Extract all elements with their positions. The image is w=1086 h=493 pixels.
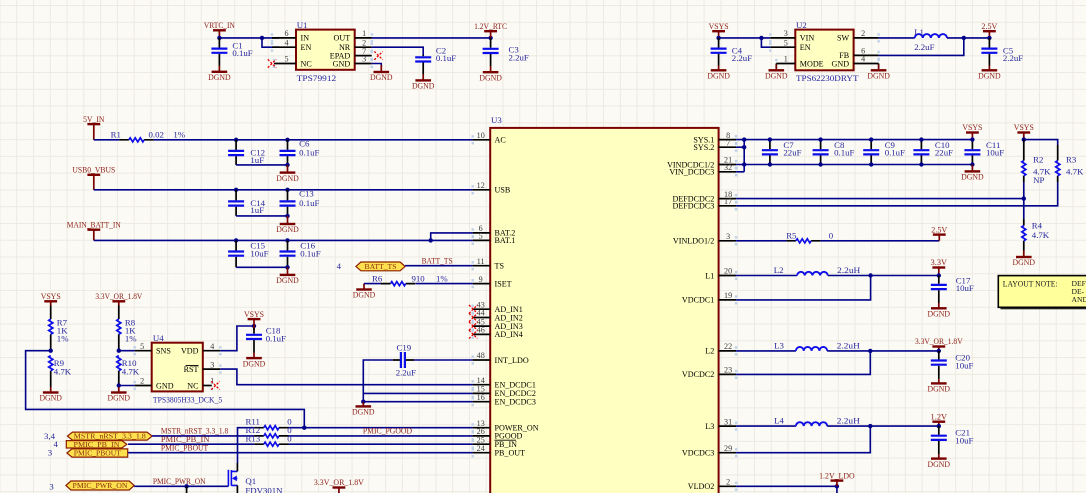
ground DGND under R9 — [50, 387, 52, 393]
resistor R6 910 1% — [381, 283, 415, 285]
svg-text:0.1uF: 0.1uF — [834, 148, 854, 158]
svg-text:DGND: DGND — [961, 172, 984, 182]
svg-text:NC: NC — [301, 59, 312, 68]
U3 pin 44 AD_IN2 — [473, 317, 491, 319]
svg-text:4.7K: 4.7K — [1032, 230, 1050, 240]
wire R11 left to Q1 drain rail — [238, 428, 255, 463]
svg-text:USB0_VBUS: USB0_VBUS — [72, 165, 115, 175]
svg-text:R6: R6 — [372, 274, 383, 284]
svg-text:DGND: DGND — [243, 358, 266, 368]
U4 pin 4 VDD — [203, 350, 221, 352]
svg-text:1%: 1% — [173, 130, 185, 140]
svg-text:4.7K: 4.7K — [1066, 167, 1084, 177]
capacitor C4 — [718, 38, 720, 66]
svg-text:TPS62230DRYT: TPS62230DRYT — [796, 73, 859, 83]
wire to U2.EN — [761, 38, 770, 47]
wire SYS vertical tie — [743, 140, 745, 172]
svg-text:3: 3 — [210, 360, 214, 369]
wire to U1.EN — [262, 38, 279, 47]
svg-text:22uF: 22uF — [935, 148, 953, 158]
svg-text:910: 910 — [412, 274, 426, 284]
svg-text:TS: TS — [495, 262, 504, 271]
svg-text:7: 7 — [726, 138, 730, 147]
U3 pin 6 BAT.2 — [473, 232, 491, 234]
port PMIC_PB_IN — [66, 441, 127, 448]
svg-text:U1: U1 — [297, 20, 308, 30]
inductor L4 2.2uH — [796, 422, 827, 426]
capacitor C18 0.1uF — [253, 328, 255, 353]
port MSTR_nRST_3.3_1.8 — [67, 432, 152, 440]
svg-text:PMIC_PBOUT: PMIC_PBOUT — [161, 442, 209, 452]
U3 pin 17 DEFDCDC3 — [719, 205, 737, 207]
svg-text:3: 3 — [726, 232, 730, 241]
wire L2 to 3.3V node — [828, 275, 939, 277]
svg-text:EN_DCDC3: EN_DCDC3 — [495, 398, 536, 407]
ground DGND row2 — [287, 216, 289, 224]
capacitor C19 2.2uF horizontal — [393, 359, 414, 361]
ground DGND under C4 — [718, 66, 720, 71]
op-amp U4 TPS3805H33_DCK_5 body — [152, 343, 203, 392]
junction BAT.2 branch — [429, 238, 433, 242]
wire C19 left to ground rail — [363, 360, 393, 402]
svg-text:EN_DCDC1: EN_DCDC1 — [495, 381, 536, 390]
wire U1.OUT to 1.2V_RTC — [372, 37, 491, 39]
wire MAIN_BATT_IN to U3.BAT.1 — [94, 239, 473, 241]
U2 pin 2 SW — [854, 37, 879, 39]
svg-text:SNS: SNS — [156, 347, 171, 356]
svg-text:C19: C19 — [397, 342, 412, 352]
svg-text:10uF: 10uF — [986, 148, 1004, 158]
svg-text:DGND: DGND — [479, 72, 502, 82]
capacitor C1 — [218, 38, 220, 66]
svg-text:VLDO2: VLDO2 — [688, 482, 715, 491]
junction after L1 — [962, 36, 966, 40]
svg-text:1uF: 1uF — [250, 155, 264, 165]
wire MSTR port to R12 — [152, 435, 254, 437]
svg-text:OUT: OUT — [334, 34, 351, 43]
svg-text:R3: R3 — [1066, 155, 1077, 165]
junction C15 tap — [234, 238, 238, 242]
svg-text:L3: L3 — [774, 341, 784, 351]
wire R12 to U3.PGOOD — [289, 435, 473, 437]
svg-text:5V_IN: 5V_IN — [83, 114, 105, 124]
no-connect X on U1.NC — [268, 59, 276, 67]
junction C12 tap — [234, 138, 238, 142]
U2 pin 6 FB — [854, 54, 879, 56]
svg-text:RST: RST — [184, 365, 199, 374]
svg-text:R4: R4 — [1032, 221, 1043, 231]
inductor L3 2.2uH — [796, 347, 827, 351]
svg-text:L3: L3 — [705, 422, 714, 431]
svg-text:10uF: 10uF — [250, 249, 268, 259]
wire U4.VDD to VSYS/C18 — [220, 326, 254, 351]
resistor R4 4.7K — [1023, 219, 1025, 226]
svg-text:MSTR_nRST_3.3_1.8: MSTR_nRST_3.3_1.8 — [74, 433, 146, 441]
svg-text:23: 23 — [724, 366, 732, 375]
U3 pin 20 L1 — [719, 275, 737, 277]
U3 pin 32 VIN_DCDC3 — [719, 171, 737, 173]
svg-text:DGND: DGND — [370, 72, 393, 82]
svg-text:L4: L4 — [774, 416, 784, 426]
junction output node — [937, 349, 941, 353]
wire U3 to inductor L4 — [736, 425, 796, 427]
junction PWR_ON drop — [184, 484, 188, 488]
svg-text:R2: R2 — [1033, 155, 1043, 165]
resistor R11 0 — [254, 427, 288, 429]
svg-text:NP: NP — [1033, 175, 1044, 185]
svg-text:0.02: 0.02 — [149, 130, 164, 140]
wire PBOUT port to U3.PB_OUT — [128, 452, 473, 454]
U3 pin 43 AD_IN1 — [473, 308, 491, 310]
svg-text:AND: AND — [1072, 295, 1086, 304]
svg-text:PMIC_PB_IN: PMIC_PB_IN — [74, 441, 121, 449]
U3 pin 23 VDCDC2 — [719, 373, 737, 375]
wire L1 to 2.5V node — [947, 37, 989, 39]
svg-text:TPS3805H33_DCK_5: TPS3805H33_DCK_5 — [153, 395, 223, 405]
wire R11 right to POWER_ON — [289, 427, 473, 429]
svg-text:16: 16 — [477, 393, 485, 402]
U3 pin 3 VINLDO1/2 — [719, 240, 737, 242]
junction R7/R9 divider — [49, 349, 53, 353]
no-connect X on U1.EPAD — [374, 51, 382, 59]
svg-text:0.1uF: 0.1uF — [885, 148, 905, 158]
wire L3 to output cap — [827, 350, 939, 352]
svg-text:DGND: DGND — [928, 384, 951, 394]
junction at ground tap row1 — [285, 163, 289, 167]
junction 1.2V_LDO node — [835, 484, 839, 488]
svg-text:AD_IN4: AD_IN4 — [495, 330, 523, 339]
junction DEFDCDC2/R2/R4 — [1022, 196, 1026, 200]
svg-text:L2: L2 — [705, 347, 714, 356]
ground DGND under C5 — [988, 66, 990, 71]
ground DGND under U1.GND — [380, 65, 382, 72]
svg-text:3: 3 — [49, 481, 54, 491]
svg-text:DGND: DGND — [352, 407, 375, 417]
U3 pin 21 VINDCDC1/2 — [719, 164, 737, 166]
junction output node — [937, 424, 941, 428]
U3 pin 13 POWER_ON — [473, 427, 491, 429]
svg-text:VDCDC3: VDCDC3 — [682, 449, 714, 458]
wire divider to R11 and POWER_ON — [26, 351, 305, 428]
op-amp U2 TPS62230DRYT body — [795, 30, 853, 71]
U3 pin 29 VDCDC3 — [719, 452, 737, 454]
junction SYS vertical — [742, 137, 746, 141]
wire C19 to U3.INT_LDO — [414, 359, 473, 361]
op-amp U1 TPS79912 body — [296, 30, 355, 70]
ground DGND under C18 — [253, 353, 255, 359]
capacitor C17 10uF — [938, 276, 940, 304]
capacitor C5 — [988, 38, 990, 66]
svg-text:R13: R13 — [246, 433, 261, 443]
junction 3.3V node — [937, 273, 941, 277]
capacitor C8 0.1uF — [820, 140, 822, 165]
svg-text:3.3V_OR_1.8V: 3.3V_OR_1.8V — [314, 477, 365, 487]
svg-text:LAYOUT NOTE:: LAYOUT NOTE: — [1003, 279, 1058, 288]
svg-text:GND: GND — [156, 381, 174, 390]
svg-text:DGND: DGND — [353, 290, 376, 300]
U3 pin 10 AC — [473, 139, 491, 141]
U3 pin 16 EN_DCDC3 — [473, 401, 491, 403]
svg-text:EN: EN — [301, 43, 312, 52]
svg-text:GND: GND — [832, 59, 850, 68]
svg-text:PMIC_PWR_ON: PMIC_PWR_ON — [153, 476, 206, 486]
wire U2.MODE to ground — [775, 64, 777, 66]
U4 pin 2 GND — [135, 385, 152, 387]
wire R6 to U3.ISET — [415, 283, 472, 285]
U3 pin 7 SYS.2 — [719, 146, 737, 148]
svg-text:VINLDO1/2: VINLDO1/2 — [673, 237, 714, 246]
wire VSYS to U2.VIN — [719, 37, 771, 39]
svg-text:9: 9 — [479, 275, 483, 284]
svg-text:VSYS: VSYS — [709, 21, 729, 31]
svg-text:2.2uH: 2.2uH — [837, 265, 861, 275]
svg-text:2.5V: 2.5V — [981, 21, 998, 31]
wire U4.RST to EN_DCDC1 — [220, 369, 472, 385]
svg-text:NC: NC — [187, 381, 198, 390]
junction U2.EN branch — [759, 36, 763, 40]
U1 pin 5 NC — [274, 63, 296, 65]
svg-text:1: 1 — [784, 55, 788, 64]
no-connect X on AD_IN1 — [469, 305, 477, 313]
U3 pin 46 AD_IN4 — [473, 333, 491, 335]
svg-text:32: 32 — [724, 163, 732, 172]
svg-text:VSYS: VSYS — [962, 122, 982, 132]
svg-text:4.7K: 4.7K — [54, 367, 72, 377]
svg-text:0.1uF: 0.1uF — [300, 249, 320, 259]
wire PWR_ON drop off-sheet — [186, 486, 188, 493]
svg-text:SYS.2: SYS.2 — [693, 143, 714, 152]
wire BATT_TS to U3.TS — [405, 265, 473, 267]
resistor R7 1K 1% — [50, 306, 52, 320]
svg-text:MODE: MODE — [800, 59, 824, 68]
junction feedback tap — [868, 424, 872, 428]
svg-text:SW: SW — [837, 34, 850, 43]
resistor R5 0 — [786, 240, 820, 242]
junction VDD at C18 lead — [252, 324, 256, 328]
U3 pin 8 SYS.1 — [719, 139, 737, 141]
svg-text:U2: U2 — [796, 20, 807, 30]
ground DGND under C2 — [422, 74, 424, 80]
junction 1.2V_RTC node — [488, 36, 492, 40]
wire PB_IN port to R13 — [128, 443, 254, 445]
resistor R9 4.7K — [50, 371, 52, 387]
U3 pin 19 VDCDC1 — [719, 299, 737, 301]
U3 pin 48 INT_LDO — [473, 359, 491, 361]
svg-text:3: 3 — [48, 448, 53, 458]
ground DGND under C11 — [971, 165, 973, 172]
ground DGND under U2.MODE — [775, 65, 777, 71]
svg-text:31: 31 — [724, 417, 732, 426]
svg-text:5: 5 — [140, 342, 144, 351]
svg-text:ISET: ISET — [495, 279, 512, 288]
svg-text:4: 4 — [861, 55, 865, 64]
svg-text:1%: 1% — [57, 334, 69, 344]
junction R8/R10 divider — [117, 349, 121, 353]
svg-text:DGND: DGND — [276, 275, 299, 285]
svg-text:1.2V: 1.2V — [931, 411, 948, 421]
U3 pin 45 AD_IN3 — [473, 325, 491, 327]
wire R1 to U3.AC — [154, 139, 473, 141]
ground DGND under C21 — [938, 454, 940, 459]
ground DGND row3 — [287, 267, 289, 275]
svg-text:12: 12 — [477, 181, 485, 190]
svg-text:3: 3 — [784, 29, 788, 38]
svg-text:4: 4 — [337, 261, 342, 271]
svg-text:10uF: 10uF — [955, 436, 973, 446]
svg-text:0.1uF: 0.1uF — [232, 48, 252, 58]
svg-text:DGND: DGND — [412, 81, 435, 91]
svg-text:2.2uF: 2.2uF — [1003, 53, 1023, 63]
svg-text:5: 5 — [284, 55, 288, 64]
svg-text:DGND: DGND — [276, 224, 299, 234]
svg-text:VIN: VIN — [800, 34, 815, 43]
svg-text:VDCDC1: VDCDC1 — [682, 296, 714, 305]
U1 pin 6 IN — [272, 37, 296, 39]
resistor R3 4.7K — [1057, 145, 1059, 161]
svg-text:BATT_TS: BATT_TS — [365, 263, 397, 271]
junction C13 tap — [285, 188, 289, 192]
svg-text:DEFDCDC3: DEFDCDC3 — [672, 202, 714, 211]
svg-text:11: 11 — [477, 257, 485, 266]
svg-text:2.2uF: 2.2uF — [732, 53, 752, 63]
junction C16 tap — [285, 238, 289, 242]
svg-text:DGND: DGND — [867, 71, 890, 81]
wire divider to U4.SNS — [119, 350, 135, 352]
capacitor C11 10uF — [971, 140, 973, 165]
U3 pin 14 EN_DCDC1 — [473, 384, 491, 386]
junction C11 bottom — [970, 162, 974, 166]
capacitor C10 22uF — [920, 140, 922, 165]
junction U1.EN branch — [260, 36, 264, 40]
svg-text:DGND: DGND — [978, 71, 1001, 81]
capacitor C7 22uF — [769, 140, 771, 165]
inductor L1 2.2uF — [915, 34, 947, 38]
svg-text:4.7K: 4.7K — [122, 367, 140, 377]
junction ground tap row2 — [285, 214, 289, 218]
svg-text:3.3V_OR_1.8V: 3.3V_OR_1.8V — [95, 291, 142, 301]
svg-text:19: 19 — [724, 291, 732, 300]
svg-text:DGND: DGND — [707, 71, 730, 81]
svg-text:2.2uF: 2.2uF — [509, 52, 529, 62]
U4 pin 1 NC — [203, 385, 212, 387]
svg-text:VIN_DCDC3: VIN_DCDC3 — [669, 168, 714, 177]
resistor R1 0.02 1% — [119, 139, 153, 141]
wire DEFDCDC3 to R3 — [736, 182, 1058, 205]
svg-text:22uF: 22uF — [783, 148, 801, 158]
svg-text:L1: L1 — [705, 271, 714, 280]
svg-text:DGND: DGND — [928, 459, 951, 469]
wire to U3.BAT.2 — [431, 233, 473, 241]
ground DGND under C3 — [490, 66, 492, 72]
capacitor C20 10uF — [938, 351, 940, 379]
svg-text:BATT_TS: BATT_TS — [422, 255, 453, 265]
svg-text:46: 46 — [477, 326, 485, 335]
junction ground tap row3 — [285, 265, 289, 269]
svg-text:17: 17 — [724, 197, 732, 206]
svg-text:0.1uF: 0.1uF — [266, 333, 286, 343]
capacitor C6 0.1uF — [287, 140, 289, 165]
U3 pin 15 EN_DCDC2 — [473, 392, 491, 394]
junction at C1 top — [217, 36, 221, 40]
junction at U4.GND branch — [117, 383, 121, 387]
U4 pin 3 RST — [203, 368, 221, 370]
wire cap bottoms row1 — [236, 164, 287, 166]
junction R11/divider/POWER_ON — [302, 426, 306, 430]
svg-text:L1: L1 — [914, 27, 924, 37]
svg-text:VSYS: VSYS — [1014, 122, 1034, 132]
svg-text:BAT.1: BAT.1 — [495, 236, 516, 245]
U3 pin 22 L2 — [719, 350, 737, 352]
port BATT_TS — [356, 262, 405, 271]
svg-text:0: 0 — [829, 231, 834, 241]
resistor R8 1K 1% — [118, 306, 120, 320]
svg-text:2.2uF: 2.2uF — [396, 368, 416, 378]
layout note box — [1001, 278, 1086, 310]
U4 pin 5 SNS — [135, 350, 152, 352]
ground DGND under C17 — [938, 303, 940, 308]
capacitor C12 1uF — [235, 140, 237, 165]
junction C14 tap — [234, 188, 238, 192]
ground DGND under C20 — [938, 379, 940, 384]
svg-text:DGND: DGND — [276, 173, 299, 183]
svg-text:EN: EN — [800, 43, 811, 52]
wire SYS.2 to vertical — [736, 146, 744, 148]
resistor R12 0 — [254, 435, 288, 437]
wire 5V_IN to R1 — [94, 139, 120, 141]
wire U3 to inductor L3 — [736, 350, 796, 352]
svg-text:3: 3 — [362, 55, 366, 64]
capacitor C13 0.1uF — [287, 190, 289, 216]
svg-text:2.2uH: 2.2uH — [837, 341, 861, 351]
U2 pin 1 MODE — [776, 63, 795, 65]
svg-text:10uF: 10uF — [955, 361, 973, 371]
wire PWR_ON port to Q1 gate — [134, 485, 228, 487]
U3 pin 25 PB_IN — [473, 443, 491, 445]
svg-text:5: 5 — [479, 232, 483, 241]
ground DGND at R6 — [363, 284, 365, 290]
wire VDCDC1 feedback — [736, 276, 871, 300]
wire USB0_VBUS to U3.USB — [94, 189, 473, 191]
U2 pin 5 EN — [770, 46, 795, 48]
svg-text:1uF: 1uF — [250, 205, 264, 215]
wire L4 to output cap — [827, 425, 939, 427]
svg-text:DGND: DGND — [1013, 257, 1036, 267]
capacitor C14 1uF — [235, 190, 237, 216]
svg-text:PMIC_PWR_ON: PMIC_PWR_ON — [73, 482, 129, 490]
svg-text:29: 29 — [724, 444, 732, 453]
svg-text:14: 14 — [477, 376, 485, 385]
svg-text:PB_OUT: PB_OUT — [495, 449, 526, 458]
junction R2 top — [1022, 137, 1026, 141]
svg-text:PMIC_PGOOD: PMIC_PGOOD — [363, 426, 412, 436]
wire SYS.1 bus top — [736, 139, 972, 141]
wire DGND to R6 — [364, 283, 381, 285]
wire U2.GND to ground — [878, 64, 880, 66]
svg-text:VRTC_IN: VRTC_IN — [204, 20, 236, 30]
U1 pin 2 NR — [355, 46, 372, 48]
no-connect X on AD_IN4 — [469, 330, 477, 338]
U3 pin 24 PB_OUT — [473, 452, 491, 454]
resistor R2 4.7K NP — [1023, 140, 1025, 161]
svg-text:0.1uF: 0.1uF — [436, 53, 456, 63]
junction VDCDC1 tap — [868, 273, 872, 277]
ground DGND under R4 — [1023, 251, 1025, 258]
U3 pin 5 BAT.1 — [473, 239, 491, 241]
svg-text:4: 4 — [210, 342, 214, 351]
svg-text:R1: R1 — [111, 130, 121, 140]
svg-text:2: 2 — [726, 478, 730, 487]
U1 pin 1 OUT — [355, 37, 372, 39]
